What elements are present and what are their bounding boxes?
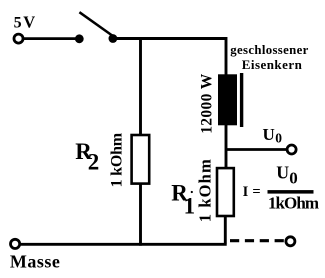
wire branch to U0 terminal	[226, 148, 288, 151]
dashed wire to output return terminal	[230, 239, 284, 242]
coil L1 (solenoid body, filled)	[218, 74, 237, 125]
wire from R1 bottom to ground wire	[224, 215, 227, 244]
svg-text:0: 0	[275, 131, 282, 146]
svg-text:5: 5	[14, 15, 22, 32]
resistor R2 body	[132, 135, 150, 184]
wire from coil bottom to R1	[225, 124, 228, 168]
svg-text:0: 0	[289, 168, 298, 187]
iron core bar	[240, 73, 243, 127]
svg-text:1 kOhm: 1 kOhm	[195, 159, 214, 222]
terminal 5V	[14, 34, 23, 43]
svg-text:U: U	[263, 125, 275, 144]
svg-text:1 kOhm: 1 kOhm	[108, 132, 125, 187]
terminal Masse	[11, 239, 20, 248]
wire from top wire down to R2	[139, 40, 142, 136]
resistor R1 body	[217, 168, 234, 216]
switch lever S1 (open)	[79, 12, 113, 36]
svg-text:1: 1	[184, 194, 196, 219]
svg-text:Masse: Masse	[10, 252, 60, 272]
ground wire (bottom)	[20, 243, 227, 246]
wire from switch to top-right corner, down to coil	[113, 39, 226, 76]
svg-text:U: U	[276, 162, 289, 182]
switch pivot dot (right)	[109, 34, 118, 43]
svg-text:I =: I =	[243, 184, 261, 200]
fraction bar	[268, 190, 314, 194]
terminal output return	[286, 237, 295, 246]
svg-text:1kOhm: 1kOhm	[268, 193, 319, 212]
switch contact dot (left)	[75, 34, 84, 43]
wire from R2 bottom to ground wire	[139, 183, 142, 246]
terminal U0	[287, 145, 296, 154]
stray dot	[191, 191, 193, 193]
svg-text:geschlossener: geschlossener	[230, 43, 308, 57]
svg-text:12000 W: 12000 W	[199, 73, 216, 134]
wire from 5V terminal to switch contact	[24, 37, 77, 40]
svg-text:2: 2	[88, 150, 100, 175]
svg-text:V: V	[23, 13, 35, 32]
svg-text:Eisenkern: Eisenkern	[242, 57, 303, 72]
